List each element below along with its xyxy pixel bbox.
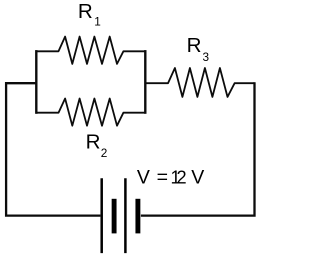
svg-text:3: 3 xyxy=(203,50,210,64)
wire: parallel box left vertical xyxy=(35,50,37,114)
battery plate: short thick (negative, cell 2) xyxy=(135,199,140,234)
svg-text:R: R xyxy=(86,130,101,153)
svg-text:V: V xyxy=(191,166,204,188)
wire: parallel box right vertical xyxy=(144,50,146,114)
svg-text:V: V xyxy=(137,166,150,188)
svg-text:1: 1 xyxy=(94,15,101,29)
svg-text:R: R xyxy=(187,34,202,57)
wire: left stub + left bus + bottom-left wire xyxy=(6,83,100,215)
battery plate: short thick (negative, cell 1) xyxy=(112,199,117,234)
resistor R1 xyxy=(36,37,145,64)
resistor R3 (with leads from parallel box to right bus) xyxy=(145,68,254,97)
resistor R2 xyxy=(36,99,145,126)
svg-text:2: 2 xyxy=(101,146,108,160)
label V = 12 V xyxy=(137,166,204,188)
svg-text:R: R xyxy=(78,0,93,23)
battery plate: long (positive, cell 2) xyxy=(124,178,127,253)
svg-text:2: 2 xyxy=(177,168,187,188)
battery V (two cells) xyxy=(102,178,138,253)
battery plate: long (positive, cell 1) xyxy=(100,178,103,253)
svg-text:=: = xyxy=(157,166,168,188)
wire: right bus + bottom-right wire xyxy=(141,82,255,215)
